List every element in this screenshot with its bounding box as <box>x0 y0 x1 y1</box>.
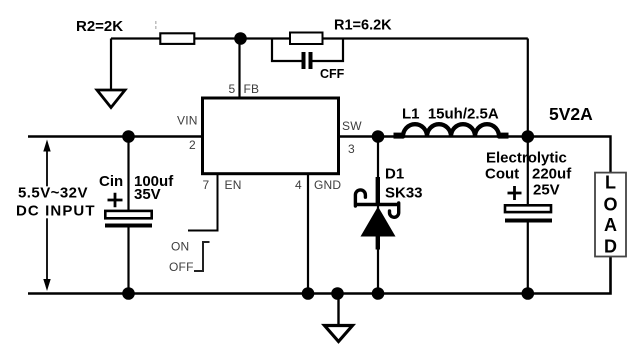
svg-text:SK33: SK33 <box>385 185 423 202</box>
svg-text:25V: 25V <box>533 182 560 199</box>
svg-text:R2=2K: R2=2K <box>76 18 123 35</box>
svg-text:SW: SW <box>342 119 362 133</box>
svg-text:L1 15uh/2.5A: L1 15uh/2.5A <box>402 106 499 123</box>
svg-text:5: 5 <box>229 82 236 96</box>
svg-text:Electrolytic: Electrolytic <box>486 150 567 167</box>
svg-text:L: L <box>605 173 616 193</box>
svg-text:EN: EN <box>225 178 242 192</box>
svg-text:D: D <box>604 236 617 256</box>
svg-text:Cout: Cout <box>485 166 519 183</box>
svg-text:D1: D1 <box>385 166 404 183</box>
svg-text:7: 7 <box>203 178 210 192</box>
svg-text:5.5V~32V: 5.5V~32V <box>18 185 88 202</box>
svg-text:3: 3 <box>348 142 355 156</box>
svg-text:Cin: Cin <box>99 173 123 190</box>
svg-text:OFF: OFF <box>169 260 194 274</box>
svg-text:220uf: 220uf <box>532 166 572 183</box>
svg-text:CFF: CFF <box>320 67 345 81</box>
svg-text:2: 2 <box>189 138 196 152</box>
svg-text:R1=6.2K: R1=6.2K <box>334 18 392 34</box>
svg-text:4: 4 <box>295 178 302 192</box>
svg-text:FB: FB <box>244 82 260 96</box>
svg-text:DC INPUT: DC INPUT <box>16 203 96 220</box>
svg-text:ON: ON <box>171 239 189 253</box>
svg-text:5V2A: 5V2A <box>549 104 593 124</box>
svg-text:GND: GND <box>314 178 341 192</box>
svg-text:VIN: VIN <box>177 114 198 128</box>
svg-text:35V: 35V <box>134 186 161 203</box>
svg-text:A: A <box>604 215 617 235</box>
svg-text:O: O <box>603 194 617 214</box>
